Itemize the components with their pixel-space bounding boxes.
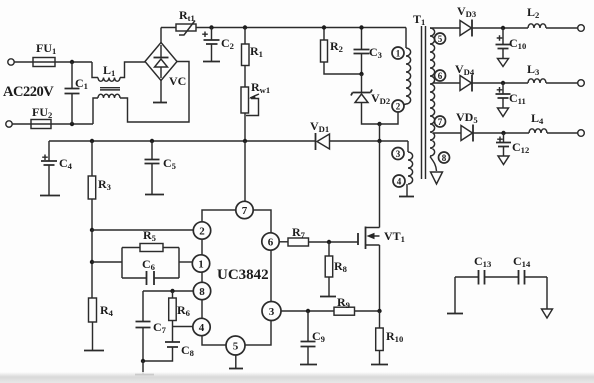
svg-text:C9: C9: [312, 329, 325, 344]
resistor R7: [288, 238, 358, 246]
svg-text:VT1: VT1: [384, 229, 405, 244]
input terminal top: [8, 59, 14, 65]
transformer secondary winding: [430, 28, 435, 156]
resistor R2: [321, 28, 362, 75]
diode VD1: [316, 133, 330, 150]
wire node to drain line: [379, 124, 381, 141]
node source R10: [377, 309, 381, 313]
svg-text:C1: C1: [75, 76, 88, 91]
svg-text:R7: R7: [292, 225, 306, 240]
wire loop to pin1: [179, 261, 192, 263]
op-amp U1 UC3842 body: [202, 210, 271, 345]
IC pin 8: [193, 282, 210, 299]
IC pin 5: [226, 336, 245, 355]
wire L4 to terminal: [547, 132, 578, 134]
wire L3 to terminal: [546, 82, 578, 84]
svg-text:1: 1: [198, 259, 204, 271]
capacitor C1: [65, 62, 80, 124]
wire tap 5: [430, 27, 460, 29]
node C3 R2 junction: [359, 72, 363, 76]
svg-text:VD2: VD2: [371, 91, 390, 106]
svg-text:FU1: FU1: [36, 41, 56, 56]
wire pin4 row: [173, 326, 193, 328]
svg-text:5: 5: [233, 341, 239, 353]
svg-text:R3: R3: [98, 177, 111, 192]
transformer primary winding 1-2: [380, 28, 411, 125]
top rail: [161, 27, 406, 29]
zener VD2: [351, 74, 380, 124]
bridge bottom lead: [160, 81, 162, 103]
inductor L3: [528, 79, 546, 83]
ground bar C5: [145, 194, 164, 196]
svg-text:VD3: VD3: [457, 4, 476, 19]
pin 7 circle: [435, 116, 446, 127]
wire pin8 row: [143, 290, 193, 292]
transformer core: [422, 26, 426, 179]
svg-text:4: 4: [397, 177, 402, 187]
choke L1 bottom winding: [93, 62, 189, 125]
thermistor Rt1: [176, 21, 196, 36]
bridge top lead: [160, 28, 162, 43]
node VD2 drain junction: [377, 122, 381, 126]
wire VD5 to C12 node: [473, 132, 529, 134]
ground arrow secondary: [431, 172, 443, 184]
wire pin6 to R7: [279, 241, 288, 243]
pin 4 circle: [393, 175, 405, 187]
resistor R10: [376, 311, 384, 364]
node drain top: [377, 139, 381, 143]
wire C13 to C14: [485, 276, 518, 278]
ground bar R8: [320, 296, 336, 298]
svg-text:L2: L2: [527, 5, 539, 20]
svg-text:FU2: FU2: [32, 105, 52, 120]
svg-text:4: 4: [199, 322, 205, 334]
svg-text:C4: C4: [59, 156, 73, 171]
diode VD3: [460, 20, 472, 37]
svg-text:L3: L3: [527, 62, 539, 77]
wire winding bottom: [430, 157, 437, 172]
capacitor C6: [147, 271, 155, 285]
svg-text:C6: C6: [142, 257, 156, 272]
node bus pin7: [243, 139, 247, 143]
node C5 bus: [150, 139, 154, 143]
pin 3 circle: [392, 148, 404, 160]
svg-text:C13: C13: [474, 254, 491, 269]
wire FU2 to node: [51, 123, 93, 125]
node C1 top: [70, 60, 74, 64]
svg-text:1: 1: [396, 49, 401, 59]
svg-text:8: 8: [442, 153, 447, 163]
wire pin3 row: [281, 310, 334, 312]
fuse FU2: [31, 120, 51, 129]
resistor R1: [242, 28, 250, 88]
node C11: [501, 81, 505, 85]
capacitor C9: [301, 311, 316, 364]
capacitor C4 polarized: [41, 141, 57, 195]
svg-text:3: 3: [269, 306, 275, 318]
IC pin 2: [193, 222, 210, 239]
ground bar C13 left: [447, 277, 463, 314]
ground bar bridge: [153, 102, 167, 104]
ground bar R10: [371, 364, 388, 366]
capacitor C3: [354, 28, 370, 75]
svg-text:C12: C12: [512, 140, 529, 155]
ground arrow C10: [498, 59, 509, 67]
svg-text:6: 6: [438, 71, 443, 81]
ground arrow C12: [498, 156, 509, 165]
node C1 bottom: [70, 122, 74, 126]
node C12: [501, 131, 505, 135]
diode VD4: [460, 75, 472, 92]
node C7 C8 ground: [141, 359, 145, 363]
svg-text:5: 5: [438, 34, 443, 44]
inductor L4: [529, 129, 547, 133]
capacitor C10: [496, 28, 511, 59]
wire VD3 to C10 node: [472, 27, 528, 29]
pin 2 circle: [392, 100, 404, 112]
wire tap 6: [433, 82, 460, 84]
resistor R9: [334, 307, 380, 315]
svg-text:VC: VC: [169, 74, 186, 88]
capacitor C5: [145, 141, 160, 194]
svg-text:7: 7: [438, 117, 443, 127]
node R8 gate: [327, 240, 331, 244]
svg-text:R6: R6: [177, 303, 191, 318]
output terminal 3: [578, 130, 585, 137]
svg-text:T1: T1: [413, 12, 425, 27]
svg-text:UC3842: UC3842: [217, 267, 269, 283]
wire VD4 to C11 node: [472, 82, 528, 84]
inductor L2: [528, 24, 546, 28]
capacitor C7: [136, 291, 151, 361]
svg-text:Rw1: Rw1: [251, 80, 270, 95]
resistor R6: [169, 291, 177, 342]
svg-text:C14: C14: [513, 254, 531, 269]
svg-text:C11: C11: [509, 91, 526, 106]
potentiometer Rw1: [241, 87, 259, 141]
pin 6 circle: [435, 70, 446, 81]
ground pin5: [229, 355, 243, 369]
pin 5 circle: [435, 33, 446, 44]
ground bar winding 4: [399, 196, 414, 198]
svg-text:R1: R1: [250, 44, 263, 59]
svg-text:8: 8: [199, 286, 205, 298]
ground arrow C14 right: [542, 277, 553, 318]
svg-text:R2: R2: [330, 39, 343, 54]
svg-text:C10: C10: [509, 36, 526, 51]
scan shadow bottom: [0, 372, 594, 383]
svg-text:R8: R8: [334, 259, 348, 274]
wire bus to IC pin7: [244, 141, 246, 201]
svg-text:VD5: VD5: [456, 110, 478, 125]
capacitor C11: [496, 83, 511, 108]
bridge rectifier VC: [145, 43, 177, 81]
svg-text:3: 3: [396, 149, 401, 159]
ground bar C7: [135, 361, 154, 375]
svg-text:VD1: VD1: [310, 119, 329, 134]
pin 1 circle: [392, 47, 404, 59]
input terminal bottom: [6, 121, 12, 127]
node C3 top: [359, 25, 363, 29]
transistor Q1 VT1 mosfet: [358, 141, 380, 311]
node C10: [501, 26, 505, 30]
output terminal 2: [578, 80, 585, 87]
svg-text:2: 2: [199, 226, 205, 238]
svg-text:R4: R4: [100, 303, 114, 318]
svg-text:C3: C3: [369, 45, 382, 60]
IC pin 7: [236, 201, 253, 218]
wire R3 to R4: [91, 230, 93, 298]
capacitor C12: [496, 133, 511, 156]
main bus wire: [49, 140, 408, 142]
svg-text:7: 7: [242, 205, 248, 217]
svg-text:C5: C5: [163, 156, 176, 171]
capacitor C13: [455, 270, 485, 285]
svg-text:L1: L1: [103, 63, 115, 78]
fuse FU1: [33, 58, 55, 67]
svg-text:2: 2: [396, 102, 401, 112]
wire terminal to FU1: [14, 61, 33, 63]
svg-text:L4: L4: [531, 111, 544, 126]
ground bar R4: [84, 350, 104, 352]
svg-text:C2: C2: [221, 36, 234, 51]
choke L1 top winding: [92, 62, 145, 81]
svg-text:C8: C8: [181, 343, 195, 358]
node R3 pin2: [90, 228, 94, 232]
capacitor C8: [143, 342, 180, 361]
node R6 top: [170, 289, 174, 293]
svg-text:Rt1: Rt1: [179, 8, 195, 23]
diode VD5: [461, 125, 473, 142]
svg-text:R10: R10: [386, 329, 403, 344]
svg-text:AC220V: AC220V: [3, 84, 54, 100]
wire tap 7: [433, 132, 461, 134]
IC pin 6: [262, 233, 279, 250]
choke L1 core bars: [100, 88, 120, 90]
capacitor C14: [519, 270, 548, 285]
svg-text:6: 6: [268, 237, 274, 249]
node loop left: [90, 260, 94, 264]
wire FU1 to node: [55, 61, 92, 63]
output terminal 1: [578, 25, 585, 32]
capacitor C2 polarized: [202, 28, 219, 62]
resistor R5: [140, 244, 163, 252]
resistor R3: [88, 141, 96, 230]
node C9: [306, 309, 310, 313]
node R2 top: [322, 25, 326, 29]
svg-text:C7: C7: [153, 320, 167, 335]
parallel loop R5 C6: [122, 248, 179, 279]
IC pin 3: [262, 302, 281, 321]
svg-text:R9: R9: [337, 295, 350, 310]
node C2: [209, 25, 213, 29]
ground bar C4: [40, 195, 60, 197]
node R1 top: [243, 25, 247, 29]
transformer winding 3-4: [407, 141, 413, 196]
ground bar C9: [300, 364, 317, 366]
resistor R8: [325, 242, 333, 296]
wire terminal to FU2: [12, 123, 31, 125]
wire pin2: [92, 229, 193, 231]
ground arrow C11: [498, 108, 509, 117]
IC pin 4: [193, 318, 210, 335]
node R3 bus: [90, 139, 94, 143]
svg-text:VD4: VD4: [455, 62, 475, 77]
resistor R4: [89, 298, 97, 350]
wire node to loop: [92, 261, 122, 263]
ground bar C2: [203, 61, 220, 63]
wire L2 to terminal: [546, 27, 578, 29]
pin 8 circle: [439, 152, 450, 163]
IC pin 1: [192, 255, 209, 272]
